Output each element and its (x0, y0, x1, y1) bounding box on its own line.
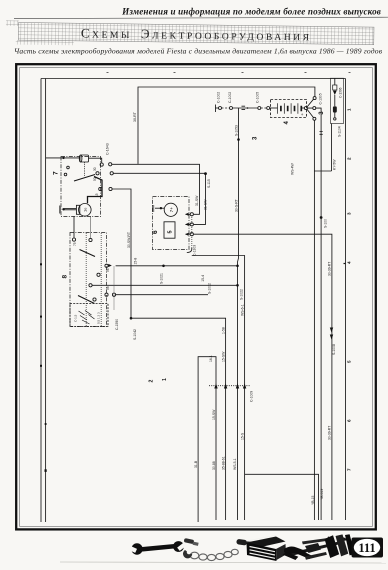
pliers (283, 547, 314, 560)
wire right strip down (331, 124, 333, 172)
svg-text:Изменения и информация по моде: Изменения и информация по моделям более … (121, 7, 381, 17)
fuse cylinder on box7 top (80, 155, 89, 162)
fuse symbol chain (334, 78, 336, 85)
svg-text:1-58: 1-58 (221, 327, 225, 334)
svg-text:C-1,5: C-1,5 (74, 314, 78, 322)
motor lead terminal (62, 208, 64, 210)
wire dot to cylinder (64, 157, 81, 159)
junction dot S-1042 (130, 317, 133, 320)
dashed connector row C-1009 (209, 385, 251, 387)
node on left supply wire (45, 469, 47, 472)
wire: box7 row2 to track (113, 173, 205, 224)
svg-text:3: 3 (253, 136, 259, 140)
svg-text:4: 4 (284, 121, 290, 125)
switch blade bottom in box8 (78, 296, 95, 304)
svg-text:30-SW-RT: 30-SW-RT (127, 232, 131, 248)
battery to fan node (302, 107, 304, 109)
inline crimp 31 (242, 106, 246, 109)
svg-text:S-1002: S-1002 (208, 283, 212, 294)
battery 4 dashed box (271, 100, 307, 118)
connector pair row 2 (96, 172, 99, 175)
svg-text:3: 3 (319, 111, 325, 115)
switch blade in box 7 (74, 175, 95, 182)
component 7 box (ignition switch + motor) (61, 157, 101, 217)
screwdriver (305, 543, 321, 553)
svg-text:S-1104: S-1104 (338, 126, 342, 137)
wire box6 output track (194, 234, 332, 520)
battery chain (215, 105, 217, 113)
schematic group (40, 73, 352, 523)
resistor sub-box of box8 (70, 304, 108, 327)
inner thin frame (20, 68, 373, 527)
svg-text:31-SW: 31-SW (195, 195, 199, 206)
svg-text:75: 75 (73, 242, 77, 246)
svg-text:3: 3 (347, 212, 352, 215)
svg-text:WS-5-1: WS-5-1 (233, 458, 237, 470)
svg-text:KY-5W: KY-5W (333, 159, 337, 170)
svg-text:C-1002: C-1002 (216, 92, 220, 103)
svg-text:111: 111 (358, 541, 375, 555)
top rule (14, 17, 388, 18)
wire cylinder to connector (89, 158, 102, 163)
battery cells (278, 103, 298, 114)
wire 31-B pi link (198, 357, 216, 522)
wire stub S-1002 (116, 294, 208, 296)
wire switch to motor thick (88, 177, 103, 204)
socket bit (236, 539, 252, 546)
svg-text:S-1021: S-1021 (160, 273, 164, 284)
open wrench small right (302, 538, 329, 544)
svg-text:15-SW: 15-SW (212, 409, 216, 420)
box8 mid terminals (97, 273, 100, 276)
svg-text:4: 4 (347, 261, 352, 264)
junction S-1021 (162, 265, 165, 268)
wire: top bus 30 (138, 87, 315, 164)
main bus wire y266 (116, 265, 238, 267)
wire box8 to S-1022 (92, 284, 237, 286)
svg-text:C-1305: C-1305 (319, 93, 323, 104)
small bit above chain (184, 538, 199, 546)
junction node S-115 (204, 172, 207, 175)
outer thick frame (16, 64, 376, 529)
wire: right main vertical (345, 79, 347, 521)
black box device (247, 535, 287, 561)
svg-text:1e: 1e (83, 207, 88, 212)
glow plug circle (164, 203, 177, 216)
svg-text:8: 8 (62, 275, 69, 279)
svg-text:15-8: 15-8 (133, 258, 137, 265)
svg-text:30-RT: 30-RT (133, 111, 137, 122)
wire: box7 row1 to track (112, 164, 200, 214)
links from box7 down to box8 (73, 217, 75, 239)
tick on right rail (344, 263, 346, 265)
connector pair row 1 (100, 163, 103, 166)
box8 top terminals (72, 238, 75, 241)
fan branches (307, 99, 314, 117)
junction node S-1053 (237, 138, 240, 141)
svg-text:2: 2 (149, 380, 155, 383)
motor flange (76, 205, 79, 214)
slab books right (325, 535, 340, 558)
chain flex tool (190, 549, 238, 560)
svg-text:15-SW: 15-SW (221, 351, 225, 362)
svg-text:16-1: 16-1 (209, 355, 213, 362)
svg-text:2: 2 (347, 157, 352, 160)
dotted dividers in box8 (85, 233, 87, 326)
svg-text:30-39-RT: 30-39-RT (328, 262, 332, 276)
fan node (304, 107, 307, 110)
wire fan lower branch drop (313, 120, 315, 520)
open-end double wrench (127, 541, 186, 555)
fuse strip box top right (331, 78, 344, 123)
feed terminal (160, 207, 162, 209)
svg-text:S-115: S-115 (207, 179, 211, 188)
svg-text:5: 5 (347, 360, 352, 363)
relay body 5 (164, 222, 175, 238)
component 8 box (lighting switch) (70, 233, 107, 327)
svg-text:30-S-RT: 30-S-RT (234, 199, 238, 212)
svg-text:WS-6-1: WS-6-1 (240, 304, 244, 316)
svg-text:56: 56 (106, 268, 110, 272)
schematic frame left vertical (40, 79, 42, 523)
svg-text:30: 30 (93, 167, 97, 171)
svg-text:7+: 7+ (169, 207, 174, 213)
S-1053 vertical wire (238, 108, 239, 520)
faint baseline under tools (60, 562, 386, 563)
motor lead (64, 209, 77, 211)
wire from left supply to box 7 (46, 157, 64, 159)
track tick marks above frame (107, 72, 351, 74)
svg-text:S-1053: S-1053 (234, 125, 238, 136)
svg-text:C-1009: C-1009 (249, 391, 253, 402)
svg-text:31-B: 31-B (194, 460, 198, 468)
svg-text:0,5 1 2 3: 0,5 1 2 3 (97, 312, 101, 324)
dotted connector line and hook (191, 215, 193, 248)
tools band (60, 534, 386, 563)
arrows on 331 wire (330, 328, 333, 340)
motor M in box7 (79, 204, 92, 217)
svg-text:5: 5 (168, 230, 174, 233)
wire: box7 row3 down (112, 189, 131, 318)
svg-text:30-88: 30-88 (212, 461, 216, 470)
dotted link in box7 (84, 163, 86, 177)
svg-text:15-4: 15-4 (201, 275, 205, 282)
svg-text:7: 7 (347, 468, 352, 471)
page number badge (352, 538, 384, 558)
wire KY-5W elbow (314, 170, 331, 172)
svg-text:C-1005: C-1005 (256, 92, 260, 103)
svg-text:C-1590: C-1590 (115, 319, 119, 330)
svg-text:YB-15: YB-15 (311, 495, 315, 505)
svg-text:C-1303: C-1303 (193, 245, 197, 256)
right margin track numerals (347, 108, 352, 471)
svg-text:6: 6 (152, 230, 159, 234)
wire WS-6-1 drop (192, 256, 245, 521)
svg-text:C-1002: C-1002 (228, 92, 232, 103)
svg-text:WS-4W: WS-4W (291, 163, 295, 175)
svg-text:+: + (301, 112, 304, 117)
svg-text:S-1022: S-1022 (240, 289, 244, 300)
connector pair row 3 (99, 187, 102, 190)
component 6 box (relay) (153, 197, 190, 250)
long rod wrench diagonal (287, 541, 344, 557)
junction node bus/S-1053 (236, 265, 239, 268)
junction node S-1022 (236, 284, 239, 287)
svg-text:7: 7 (53, 171, 60, 175)
schematic frame top (41, 78, 346, 80)
chain tool head (183, 550, 192, 558)
svg-text:S-1008: S-1008 (332, 344, 336, 355)
junction dot (62, 157, 64, 159)
bus feed arrow at box 8 (108, 264, 112, 267)
svg-text:C-1306: C-1306 (339, 87, 343, 98)
svg-text:C-1643: C-1643 (106, 143, 110, 155)
svg-text:30-39-RT: 30-39-RT (327, 426, 331, 440)
svg-text:YB-619: YB-619 (320, 489, 324, 500)
resistor hatch (79, 311, 95, 325)
svg-text:15-S: 15-S (240, 432, 244, 440)
wire y318 drop (131, 318, 226, 520)
hex key bar (305, 552, 327, 560)
svg-text:1: 1 (347, 108, 352, 111)
svg-text:S-1042: S-1042 (133, 329, 137, 340)
wire fan middle to S-100 drop (316, 108, 321, 520)
svg-text:35-88-61: 35-88-61 (221, 456, 225, 470)
box6 right terminals with arrows (185, 213, 193, 236)
S-100 node (320, 216, 323, 219)
wire: left supply vertical (45, 79, 47, 523)
svg-text:Часть схемы электрооборудовани: Часть схемы электрооборудования моделей … (14, 47, 383, 56)
switch blade top in box8 (80, 250, 96, 257)
svg-text:S-100: S-100 (323, 219, 327, 228)
svg-text:6: 6 (347, 419, 352, 422)
svg-text:58: 58 (106, 286, 110, 290)
bottom right elbow (245, 474, 319, 520)
svg-text:1: 1 (162, 378, 168, 381)
svg-text:31-SW: 31-SW (204, 199, 208, 210)
